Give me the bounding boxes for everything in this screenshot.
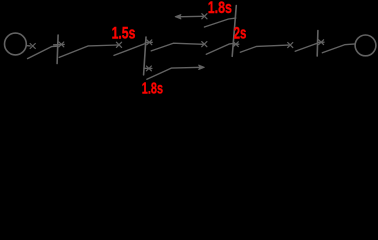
wire segment S7 rising to wall W4 (295, 43, 317, 51)
svg-text:2s: 2s (234, 25, 247, 43)
wire segment S5 rising to wall W3 (206, 44, 233, 55)
hop marker X7 (288, 43, 293, 48)
wire segment S3 rising to wall W2 (114, 44, 145, 56)
svg-text:1.5s: 1.5s (112, 25, 136, 43)
wire tick through W4 (318, 41, 325, 43)
node right terminal circle (355, 35, 376, 56)
top return wire with arrow (177, 15, 204, 18)
svg-text:1.8s: 1.8s (142, 81, 163, 97)
wire segment S2 to X3 (59, 45, 117, 57)
node left terminal circle (5, 33, 27, 55)
wire tick through W2 bottom (145, 67, 152, 69)
wire from left terminal (26, 45, 30, 47)
hop marker X9 (202, 14, 207, 19)
wire segment S1 rising to wall W1 (28, 46, 58, 58)
bottom wire segment S10 with arrow (147, 67, 202, 79)
wire segment S9 rising to wall W3 top (204, 18, 235, 27)
wire tick through W3 (233, 43, 239, 45)
hop marker X4 (147, 40, 152, 45)
hop marker X10 (146, 66, 151, 71)
wire tick through W2 (145, 41, 152, 43)
wall W4 (316, 31, 319, 57)
hop marker X5 (202, 42, 207, 47)
hop marker X2 (59, 42, 64, 47)
wire tick through W1 (54, 43, 65, 45)
svg-text:1.8s: 1.8s (208, 0, 232, 17)
hop marker X1 (30, 44, 35, 49)
hop marker X6 (233, 42, 238, 47)
wire segment S8 to right terminal (322, 44, 355, 53)
wire segment S6 to X7 (240, 45, 288, 52)
hop marker X8 (319, 40, 324, 45)
wire segment S4 to X5 (151, 43, 203, 51)
arrow head left (175, 15, 181, 19)
wall W3 (232, 6, 236, 57)
wall W2 (144, 37, 146, 75)
wall W1 (57, 35, 58, 63)
hop marker X3 (116, 42, 121, 47)
arrow head right (199, 65, 205, 69)
